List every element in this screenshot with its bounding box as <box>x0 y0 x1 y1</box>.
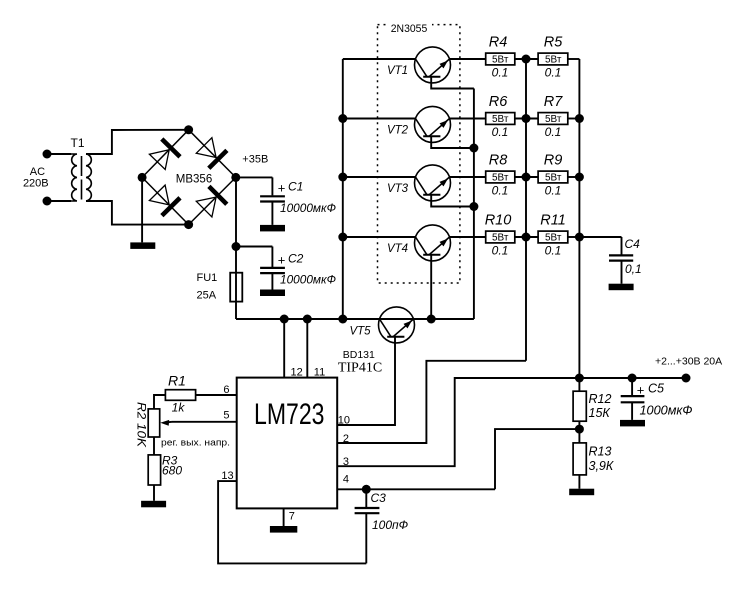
svg-text:680: 680 <box>162 464 182 478</box>
diode bridge bottom-right (anode bottom node, cathode right node) <box>196 197 216 217</box>
ground under bridge <box>130 242 155 249</box>
wire R8 to R9 <box>515 176 538 178</box>
transistor VT3 (2N3055) <box>415 165 451 201</box>
node collector rail row VT4 <box>338 233 347 242</box>
wire collector row VT4 <box>343 236 416 238</box>
fuse FU1 <box>230 273 242 302</box>
svg-text:5Вт: 5Вт <box>545 55 562 66</box>
op-amp regulator U1 LM723 <box>237 378 338 509</box>
svg-text:R8: R8 <box>489 152 508 168</box>
svg-text:5Вт: 5Вт <box>492 173 509 184</box>
wire R12 top <box>578 378 580 391</box>
wire R7 to output rail <box>568 118 580 120</box>
wire collector row VT1 <box>343 58 416 60</box>
wire base lead VT4 <box>430 255 432 319</box>
wire base rail <box>473 89 475 320</box>
outline 2N3055 group box (dotted) <box>378 25 460 283</box>
wire to C1 <box>236 176 273 178</box>
wire secondary bottom to bridge <box>86 201 189 225</box>
node output rail row 2 <box>575 114 584 123</box>
svg-text:12: 12 <box>291 367 303 379</box>
wiper arrowhead <box>160 420 169 426</box>
transistor VT5 (BD131) <box>379 307 415 343</box>
wire bus through VT5 <box>379 318 474 320</box>
wire output rail <box>578 59 580 378</box>
ground under C2 <box>260 290 285 297</box>
capacitor C2 <box>271 247 273 268</box>
transistor VT4 (2N3055) <box>415 225 451 261</box>
node R12 R13 junction <box>575 425 584 434</box>
svg-text:10000мкФ: 10000мкФ <box>280 273 336 287</box>
wire bridge left node down <box>141 177 143 242</box>
svg-text:R13: R13 <box>589 445 612 459</box>
node output terminal <box>682 374 691 383</box>
svg-text:5Вт: 5Вт <box>492 233 509 244</box>
svg-text:+: + <box>637 382 645 397</box>
svg-text:TIP41C: TIP41C <box>338 361 382 376</box>
svg-text:C1: C1 <box>288 180 303 194</box>
wire collector row VT2 <box>343 118 416 120</box>
resistor R11 (0.1 5W) <box>538 231 568 243</box>
svg-text:7: 7 <box>289 511 295 523</box>
svg-text:5Вт: 5Вт <box>545 233 562 244</box>
wire R13 to ground <box>578 475 580 489</box>
wire base lead VT3 <box>431 195 474 207</box>
svg-text:5Вт: 5Вт <box>545 173 562 184</box>
node mid rail row 3 <box>522 173 531 182</box>
svg-text:рег. вых. напр.: рег. вых. напр. <box>161 437 230 447</box>
svg-text:R7: R7 <box>544 94 563 110</box>
diode bridge bottom-left (anode left node, cathode bottom node) <box>149 185 169 205</box>
svg-text:R10: R10 <box>485 212 512 228</box>
diode bridge top-left (anode left node, cathode top node) <box>149 150 169 170</box>
svg-text:6: 6 <box>223 384 229 396</box>
node AC input terminal top <box>43 150 52 159</box>
svg-text:0.1: 0.1 <box>545 125 562 139</box>
node collector rail row VT2 <box>338 114 347 123</box>
svg-text:1000мкФ: 1000мкФ <box>640 404 693 418</box>
svg-text:C2: C2 <box>288 252 304 266</box>
svg-text:VT2: VT2 <box>387 125 409 137</box>
svg-text:VT3: VT3 <box>387 183 409 195</box>
svg-text:10000мкФ: 10000мкФ <box>280 201 336 215</box>
resistor R7 (0.1 5W) <box>538 113 568 125</box>
ground under C5 <box>620 420 645 427</box>
svg-text:LM723: LM723 <box>254 398 325 431</box>
wire VT5 base lead <box>337 337 395 425</box>
svg-text:5: 5 <box>223 410 229 422</box>
resistor R10 (0.1 5W) <box>486 231 515 243</box>
wire pin 3 to output node <box>337 378 579 466</box>
node bus pin12 riser <box>280 315 289 324</box>
wire emitter row VT4 <box>449 236 486 238</box>
svg-text:C3: C3 <box>371 491 387 505</box>
node VT4 base / VT5 emitter <box>427 315 436 324</box>
ground under pin 7 <box>270 526 297 533</box>
svg-text:10: 10 <box>338 414 350 426</box>
svg-text:MB356: MB356 <box>176 174 212 186</box>
wire emitter row VT2 <box>449 118 486 120</box>
resistor R9 (0.1 5W) <box>538 171 568 183</box>
resistor R5 (0.1 5W) <box>538 53 568 65</box>
svg-text:13: 13 <box>221 470 233 482</box>
wire emitter row VT3 <box>449 176 486 178</box>
svg-text:T1: T1 <box>70 136 84 150</box>
wire R1 to R2 <box>154 395 165 409</box>
wire base lead VT2 <box>431 136 474 148</box>
wire R12 bottom <box>578 421 580 429</box>
node mid rail row 1 <box>522 55 531 64</box>
transformer T1 secondary winding <box>86 154 92 201</box>
wire pin 6 to R1 <box>196 394 237 396</box>
node C5 tap <box>628 374 637 383</box>
label 2N3055 <box>386 20 432 33</box>
resistor R13 (3.9K) <box>573 443 586 475</box>
svg-text:BD131: BD131 <box>343 349 375 361</box>
svg-text:220В: 220В <box>23 178 49 190</box>
ground under R13 <box>569 489 594 496</box>
svg-text:R2 10K: R2 10K <box>135 402 149 448</box>
wire pin 7 to ground <box>283 508 285 526</box>
wire pin 5 to R2 wiper <box>172 421 237 423</box>
svg-text:15К: 15К <box>589 406 611 420</box>
node mid rail row 4 <box>522 233 531 242</box>
transformer T1 primary winding <box>71 154 77 201</box>
wire pin 11 riser <box>306 319 308 378</box>
wire collector rail <box>342 59 344 319</box>
wire pin4 riser to R12R13 junction <box>495 429 579 489</box>
svg-text:C5: C5 <box>648 382 664 396</box>
transistor VT2 (2N3055) <box>415 106 451 142</box>
wire R13 top <box>578 429 580 443</box>
svg-text:4: 4 <box>343 474 349 486</box>
capacitor C5 <box>631 378 633 395</box>
wire pin 2 to mid rail <box>337 361 526 443</box>
ground under R3 <box>141 501 166 508</box>
wire R10 to R11 <box>515 236 538 238</box>
wire R5 to output rail <box>568 58 580 60</box>
wire R9 to output rail <box>568 176 580 178</box>
svg-text:AC: AC <box>30 166 45 178</box>
resistor R12 (15K) <box>573 391 586 421</box>
svg-text:+: + <box>278 253 286 268</box>
svg-text:2N3055: 2N3055 <box>391 23 428 35</box>
svg-text:C4: C4 <box>625 237 641 251</box>
svg-text:3,9К: 3,9К <box>589 459 614 473</box>
svg-text:11: 11 <box>314 367 325 379</box>
svg-text:R5: R5 <box>544 34 563 50</box>
bridge rectifier MB356 edges <box>142 130 189 178</box>
svg-text:0.1: 0.1 <box>492 125 509 139</box>
node collector rail row VT3 <box>338 173 347 182</box>
svg-text:100пФ: 100пФ <box>372 518 409 532</box>
ground under C4 <box>609 284 634 291</box>
node base rail VT3 join <box>469 202 478 211</box>
svg-text:R6: R6 <box>489 94 508 110</box>
svg-text:5Вт: 5Вт <box>545 114 562 125</box>
wire R4 to R5 <box>515 58 538 60</box>
svg-text:0.1: 0.1 <box>492 66 509 80</box>
svg-text:+2...+30В 20А: +2...+30В 20А <box>655 356 722 368</box>
wire pin 4 <box>337 488 495 490</box>
wire pin 13 loop to C3 bottom <box>218 481 366 563</box>
node C2 tap <box>232 242 241 251</box>
svg-text:0.1: 0.1 <box>492 244 509 258</box>
svg-text:FU1: FU1 <box>197 272 218 284</box>
node AC input terminal bottom <box>43 197 52 206</box>
wire collector row VT3 <box>343 176 416 178</box>
resistor R3 (680) <box>148 455 160 485</box>
wire R11 to output rail <box>568 236 580 238</box>
node bus pin11 riser <box>303 315 312 324</box>
resistor R1 (1k) <box>165 390 195 401</box>
capacitor C3 <box>365 489 367 507</box>
node bus collector rail <box>338 315 347 324</box>
svg-text:0.1: 0.1 <box>545 184 562 198</box>
svg-text:VT4: VT4 <box>387 243 408 255</box>
wire bridge right node down through fuse <box>235 177 237 319</box>
svg-text:R11: R11 <box>540 212 566 228</box>
wire to C4 <box>579 236 621 238</box>
svg-text:R4: R4 <box>489 34 508 50</box>
svg-text:R1: R1 <box>168 373 186 389</box>
node bridge right <box>231 173 240 182</box>
capacitor C4 <box>621 237 623 255</box>
resistor R8 (0.1 5W) <box>486 171 515 183</box>
wire mid rail <box>525 59 527 361</box>
svg-text:VT1: VT1 <box>387 65 408 77</box>
wire R2 to R3 <box>153 437 155 455</box>
svg-text:0,1: 0,1 <box>625 262 642 276</box>
svg-text:5Вт: 5Вт <box>492 114 509 125</box>
node output rail row 4 <box>575 233 584 242</box>
node C3 top <box>362 485 371 494</box>
svg-text:+: + <box>278 181 286 196</box>
diode bridge top-right (anode top node, cathode right node) <box>196 138 216 158</box>
svg-text:R9: R9 <box>544 152 563 168</box>
potentiometer R2 (10K) <box>148 409 160 437</box>
transistor VT1 (2N3055) <box>415 47 451 83</box>
svg-text:VT5: VT5 <box>349 326 371 338</box>
svg-text:0.1: 0.1 <box>545 244 562 258</box>
wire R6 to R7 <box>515 118 538 120</box>
wire pin 12 riser <box>283 319 285 378</box>
node bridge top <box>184 125 193 134</box>
node output rail row 3 <box>575 173 584 182</box>
capacitor C1 <box>271 177 273 195</box>
node base rail VT2 join <box>469 144 478 153</box>
node bridge bottom <box>184 220 193 229</box>
svg-text:+35В: +35В <box>242 154 268 166</box>
wire secondary top to bridge <box>86 130 189 154</box>
svg-text:25A: 25A <box>197 290 217 302</box>
wire AC bottom to transformer <box>47 200 71 202</box>
wire base lead VT1 <box>431 77 474 89</box>
transformer T1 core <box>81 156 83 176</box>
svg-text:0.1: 0.1 <box>545 66 562 80</box>
resistor R6 (0.1 5W) <box>486 113 515 125</box>
svg-text:5Вт: 5Вт <box>492 55 509 66</box>
node mid rail row 2 <box>522 114 531 123</box>
wire fuse to bus <box>236 318 379 320</box>
ground under C1 <box>260 225 285 232</box>
wire to C2 <box>236 246 272 248</box>
svg-text:0.1: 0.1 <box>492 184 509 198</box>
wire output node line <box>579 377 686 379</box>
wire R3 to ground <box>153 485 155 501</box>
wire emitter row VT1 <box>449 58 486 60</box>
node output rail bottom <box>575 374 584 383</box>
svg-text:R12: R12 <box>589 392 612 406</box>
node bridge left <box>138 173 147 182</box>
wire AC top to transformer <box>47 153 71 155</box>
svg-text:1k: 1k <box>172 401 186 415</box>
resistor R4 (0.1 5W) <box>486 53 515 65</box>
